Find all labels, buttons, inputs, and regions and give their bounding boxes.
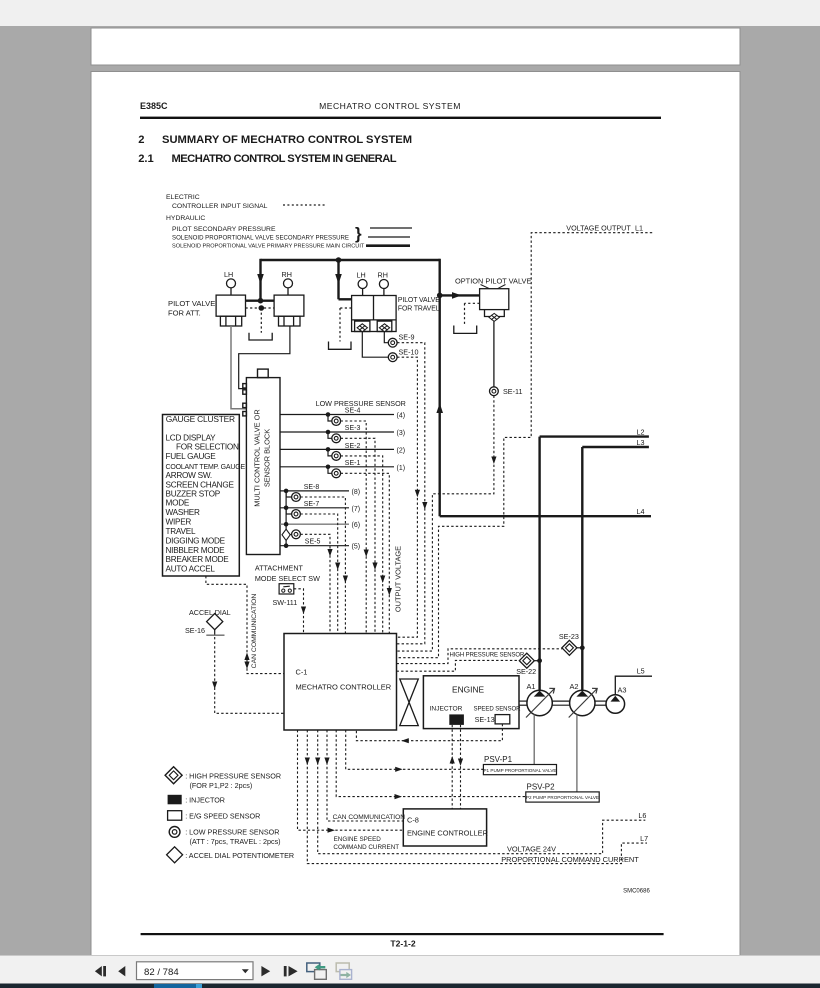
- previous view button: [307, 963, 327, 979]
- svg-text:P2 PUMP PROPORTIONAL VALVE: P2 PUMP PROPORTIONAL VALVE: [526, 795, 599, 800]
- tank symbol under option valve: [454, 326, 477, 334]
- wire SE-2 to C-1: [341, 456, 383, 634]
- wire L5: [615, 676, 652, 695]
- valve block top notch: [258, 369, 269, 378]
- svg-text:MECHATRO CONTROL SYSTEM IN GEN: MECHATRO CONTROL SYSTEM IN GENERAL: [172, 153, 397, 165]
- svg-text:SE-10: SE-10: [399, 348, 419, 357]
- valve option body: [480, 289, 509, 310]
- wire engine speed command current C-1 to C-8: [298, 730, 404, 830]
- svg-text:2.1: 2.1: [138, 153, 154, 165]
- wire dashed travel tank link: [340, 308, 352, 342]
- valve option neck: [485, 310, 505, 317]
- legend sample main circuit thick line: [366, 244, 410, 247]
- svg-text:ARROW SW.: ARROW SW.: [166, 471, 212, 480]
- wire SE-22 to C-1: [397, 660, 520, 671]
- sensor row labels: [304, 408, 405, 551]
- svg-text:WASHER: WASHER: [166, 508, 200, 517]
- svg-text:ELECTRIC: ELECTRIC: [166, 194, 200, 201]
- wire ATT LH output (gray): [231, 326, 246, 409]
- svg-text:PILOT SECONDARY PRESSURE: PILOT SECONDARY PRESSURE: [172, 226, 276, 233]
- valve travel body: [352, 296, 397, 332]
- wire A1 pump riser: [538, 437, 540, 691]
- junction dot travel tee: [336, 257, 342, 263]
- valve ATT LH ports: [220, 316, 241, 326]
- valve block body: [246, 378, 280, 555]
- svg-text:PILOT VALVE: PILOT VALVE: [398, 297, 440, 304]
- shuttle diamond above row 5: [282, 529, 290, 540]
- pointer lines from label: [481, 285, 490, 289]
- svg-text:: HIGH PRESSURE SENSOR: : HIGH PRESSURE SENSOR: [185, 771, 281, 780]
- sensor SE-8: [292, 493, 301, 502]
- svg-text:SMC0686: SMC0686: [623, 889, 650, 895]
- legend accel dial symbol: [167, 847, 183, 863]
- svg-text:BUZZER STOP: BUZZER STOP: [166, 490, 221, 499]
- svg-text:MODE SELECT SW: MODE SELECT SW: [255, 574, 320, 583]
- svg-text:INJECTOR: INJECTOR: [430, 706, 463, 713]
- svg-text:MECHATRO CONTROL SYSTEM: MECHATRO CONTROL SYSTEM: [319, 101, 461, 111]
- junction dots on rows: [284, 412, 331, 548]
- wire SE-10 to C-1: [397, 357, 418, 637]
- wire SE-7 to C-1: [300, 514, 337, 634]
- svg-text:COOLANT TEMP. GAUGE: COOLANT TEMP. GAUGE: [166, 464, 246, 471]
- svg-text:WIPER: WIPER: [166, 518, 192, 527]
- svg-text:82 / 784: 82 / 784: [144, 967, 179, 978]
- tank symbol under ATT valves: [249, 333, 272, 340]
- arrow down on travel drop: [335, 274, 342, 284]
- wire CAN gauge cluster to C-1: [206, 576, 284, 674]
- potentiometer SE-16 diamond: [207, 614, 223, 630]
- junction dot ATT link: [258, 298, 264, 304]
- valve travel RH knob: [379, 280, 388, 289]
- bottom window edge bar: [0, 984, 820, 988]
- sensor SE-2: [332, 452, 341, 461]
- wire into travel valve left port: [339, 298, 352, 300]
- wire option valve to SE-11: [493, 321, 495, 386]
- svg-text:: INJECTOR: : INJECTOR: [185, 795, 225, 804]
- svg-text:BREAKER MODE: BREAKER MODE: [166, 555, 230, 564]
- svg-text:FOR TRAVEL: FOR TRAVEL: [398, 306, 440, 313]
- svg-text:2: 2: [138, 134, 144, 146]
- svg-text:ACCEL DIAL: ACCEL DIAL: [189, 608, 231, 617]
- svg-text:OPTION PILOT VALVE: OPTION PILOT VALVE: [455, 277, 531, 286]
- wire right riser x=439.7: [439, 259, 441, 516]
- sensor SE-23 diamond: [562, 640, 577, 655]
- svg-text:RH: RH: [378, 271, 388, 280]
- wire main supply top horizontal: [261, 259, 440, 261]
- gauge cluster box: [163, 415, 240, 577]
- svg-text:LH: LH: [224, 270, 233, 279]
- svg-text:(7): (7): [352, 506, 361, 513]
- next page button: [261, 966, 270, 976]
- sensor SE-22 diamond: [519, 653, 534, 668]
- wire dashed option tank link: [465, 303, 480, 325]
- valve block left ports: [243, 384, 247, 388]
- valve ATT RH knob circle: [284, 279, 293, 288]
- valve travel solenoid box RH: [377, 321, 392, 331]
- wire SE-4 to C-1: [341, 421, 367, 634]
- wire SE-1 to C-1: [341, 473, 390, 633]
- svg-text:(4): (4): [397, 413, 406, 420]
- svg-text:ATTACHMENT: ATTACHMENT: [255, 564, 304, 573]
- svg-text:LH: LH: [357, 271, 366, 280]
- wire SE-3 to C-1: [341, 438, 375, 633]
- svg-text:MULTI CONTROL VALVE OR: MULTI CONTROL VALVE OR: [253, 409, 262, 506]
- wire L1 voltage output: [397, 233, 653, 658]
- svg-text:L5: L5: [637, 666, 645, 675]
- svg-text:SE-3: SE-3: [345, 425, 361, 432]
- valve ATT RH body: [274, 295, 304, 316]
- svg-text:: ACCEL DIAL POTENTIOMETER: : ACCEL DIAL POTENTIOMETER: [185, 851, 294, 860]
- speed sensor block: [495, 715, 510, 724]
- symbol solenoid diamond RH: [379, 324, 389, 332]
- wire SE-23 to C-1: [397, 649, 563, 664]
- svg-text:(5): (5): [352, 544, 361, 551]
- wire travel RH to SE-9: [384, 332, 388, 343]
- svg-text:L6: L6: [638, 811, 646, 820]
- svg-text:GAUGE CLUSTER: GAUGE CLUSTER: [166, 414, 235, 424]
- svg-text:DIGGING MODE: DIGGING MODE: [166, 537, 226, 546]
- legend high pressure sensor symbol: [165, 767, 182, 784]
- svg-text:P1 PUMP PROPORTIONAL VALVE: P1 PUMP PROPORTIONAL VALVE: [483, 768, 556, 773]
- header rule: [140, 117, 661, 119]
- svg-text:FOR SELECTION: FOR SELECTION: [176, 443, 239, 452]
- svg-text:OUTPUT VOLTAGE: OUTPUT VOLTAGE: [394, 546, 403, 612]
- current page: [91, 72, 740, 962]
- wire row (2): [280, 448, 394, 450]
- svg-text:SE-9: SE-9: [399, 333, 415, 342]
- coupling hourglass between C-1 and engine: [400, 679, 419, 726]
- wire row (7): [280, 507, 349, 509]
- svg-text:A1: A1: [527, 682, 536, 691]
- sensor SE-11: [490, 387, 499, 396]
- svg-text:FOR ATT.: FOR ATT.: [168, 309, 201, 318]
- svg-text:SW-111: SW-111: [273, 598, 298, 607]
- svg-text:CAN COMMUNICATION: CAN COMMUNICATION: [251, 594, 258, 669]
- svg-text:T2-1-2: T2-1-2: [390, 939, 416, 949]
- valve ATT LH knob circle: [227, 279, 236, 288]
- pump A2: [570, 690, 595, 715]
- junction dot ATT dashed: [259, 305, 265, 311]
- gauge cluster items: [166, 434, 246, 574]
- svg-text:C-8: C-8: [407, 816, 419, 825]
- wire C-8 to injector: [451, 725, 453, 809]
- svg-text:HYDRAULIC: HYDRAULIC: [166, 215, 205, 222]
- injector block: [449, 714, 464, 725]
- wire SE-13 to C-1: [356, 724, 502, 741]
- wire supply drop to ATT valves: [259, 259, 261, 301]
- svg-text:ENGINE SPEED: ENGINE SPEED: [334, 836, 382, 843]
- svg-text:A2: A2: [570, 682, 579, 691]
- previous page button: [118, 966, 125, 976]
- wire row (3): [280, 431, 394, 433]
- svg-text:L2: L2: [637, 427, 645, 436]
- sensor SE-5: [292, 530, 301, 539]
- svg-text:MECHATRO CONTROLLER: MECHATRO CONTROLLER: [296, 683, 392, 692]
- svg-text:SE-7: SE-7: [304, 501, 320, 508]
- svg-text:SE-11: SE-11: [503, 387, 522, 396]
- wire SE-9 to C-1: [397, 343, 425, 644]
- svg-text:L4: L4: [637, 507, 645, 516]
- wire voltage 24V to L6: [318, 730, 646, 854]
- svg-text:E385C: E385C: [140, 101, 168, 111]
- symbol solenoid diamond option: [489, 313, 499, 321]
- svg-text:PROPORTIONAL COMMAND CURRENT: PROPORTIONAL COMMAND CURRENT: [501, 855, 639, 864]
- wire SE-11 to C-1: [397, 396, 494, 651]
- svg-text:CAN COMMUNICATION: CAN COMMUNICATION: [333, 814, 406, 821]
- wire to PSV-P1: [346, 730, 484, 769]
- tank symbol under travel valve: [329, 342, 352, 350]
- sensor SE-1: [332, 469, 341, 478]
- wire to PSV-P2: [336, 730, 526, 797]
- svg-text:LOW PRESSURE SENSOR: LOW PRESSURE SENSOR: [316, 399, 406, 408]
- first page button: [95, 966, 106, 976]
- valve ATT RH ports: [279, 316, 301, 326]
- arrow down on ATT drop: [257, 274, 264, 284]
- svg-text:SCREEN CHANGE: SCREEN CHANGE: [166, 481, 235, 490]
- svg-text:VOLTAGE OUTPUT: VOLTAGE OUTPUT: [566, 223, 631, 232]
- svg-text:LCD DISPLAY: LCD DISPLAY: [166, 434, 217, 443]
- wire A2 pump riser: [581, 447, 583, 691]
- svg-text:NIBBLER MODE: NIBBLER MODE: [166, 546, 226, 555]
- valve travel LH knob: [358, 280, 367, 289]
- symbol solenoid diamond LH: [357, 324, 390, 332]
- svg-text:SE-1: SE-1: [345, 460, 361, 467]
- svg-text:SOLENOID PROPORTIONAL VALVE PR: SOLENOID PROPORTIONAL VALVE PRIMARY PRES…: [172, 244, 365, 250]
- switch SW-111: [279, 584, 294, 594]
- svg-text:ENGINE CONTROLLER: ENGINE CONTROLLER: [407, 829, 488, 838]
- wire row (8): [280, 490, 349, 492]
- wire accel dial to C-1: [215, 637, 284, 713]
- svg-text:(8): (8): [352, 489, 361, 496]
- svg-text:ENGINE: ENGINE: [452, 685, 485, 695]
- svg-text:L1: L1: [635, 223, 643, 232]
- wire L3 horizontal: [582, 446, 649, 448]
- svg-text:SE-16: SE-16: [185, 626, 205, 635]
- svg-text:RH: RH: [282, 270, 292, 279]
- wire row (6) gray: [280, 523, 349, 525]
- wire L2 horizontal: [540, 435, 649, 437]
- valve travel solenoid box LH: [355, 321, 370, 331]
- arrow right to option valve: [452, 292, 462, 299]
- junction dot option tee: [437, 293, 443, 299]
- svg-text:PSV-P1: PSV-P1: [484, 755, 513, 764]
- top toolbar strip: [0, 0, 820, 26]
- svg-text:SE-22: SE-22: [516, 667, 536, 676]
- shaft lines engine to A1: [519, 701, 606, 705]
- svg-text:SE-23: SE-23: [559, 632, 579, 641]
- svg-text:HIGH PRESSURE SENSOR: HIGH PRESSURE SENSOR: [450, 653, 525, 659]
- previous page bottom sliver: [91, 28, 740, 65]
- footer rule: [141, 933, 664, 935]
- controller C-8 box: [403, 809, 486, 846]
- legend sample dashed electric line: [283, 204, 326, 206]
- sensor SE-4: [292, 417, 341, 539]
- wire proportional command current to L7: [307, 730, 647, 864]
- svg-text:: E/G SPEED SENSOR: : E/G SPEED SENSOR: [185, 811, 260, 820]
- shaft lines A1 to A2: [552, 700, 570, 702]
- svg-text:(6): (6): [352, 522, 361, 529]
- svg-text:PSV-P2: PSV-P2: [527, 782, 556, 791]
- svg-text:(2): (2): [397, 447, 406, 454]
- svg-text:VOLTAGE 24V: VOLTAGE 24V: [507, 845, 556, 854]
- svg-text:}: }: [355, 224, 362, 243]
- svg-text:: LOW PRESSURE SENSOR: : LOW PRESSURE SENSOR: [185, 828, 279, 837]
- svg-text:FUEL GAUGE: FUEL GAUGE: [166, 452, 217, 461]
- next view button (disabled): [336, 963, 351, 979]
- wire row (4): [280, 414, 394, 416]
- svg-text:CONTROLLER INPUT SIGNAL: CONTROLLER INPUT SIGNAL: [172, 203, 268, 210]
- legend sample secondary line: [368, 236, 410, 238]
- sensor SE-10: [388, 353, 397, 362]
- page number box: [137, 962, 254, 980]
- svg-text:SENSOR BLOCK: SENSOR BLOCK: [263, 429, 272, 487]
- svg-text:L3: L3: [637, 438, 645, 447]
- wire supply drop to travel valve: [337, 259, 339, 300]
- svg-text:COMMAND CURRENT: COMMAND CURRENT: [333, 844, 399, 851]
- wire travel LH to SE-10: [362, 332, 388, 358]
- wire row (1): [280, 466, 394, 468]
- wire row (5): [280, 545, 349, 547]
- wire dashed ATT tank link: [246, 308, 275, 333]
- svg-text:TRAVEL: TRAVEL: [166, 527, 196, 536]
- legend e/g speed sensor symbol: [168, 811, 182, 821]
- svg-text:(1): (1): [397, 465, 406, 472]
- svg-text:SE-8: SE-8: [304, 484, 320, 491]
- svg-text:C-1: C-1: [296, 668, 308, 677]
- svg-text:SOLENOID PROPORTIONAL VALVE SE: SOLENOID PROPORTIONAL VALVE SECONDARY PR…: [172, 235, 349, 242]
- wire vertical link rows 8-5: [285, 491, 287, 546]
- shaft lines A2 to A3: [595, 700, 606, 702]
- legend sample pilot line: [370, 227, 412, 229]
- arrows on dashed sensor wires: [327, 457, 496, 596]
- sensor SE-7: [292, 510, 301, 519]
- pump A3: [606, 695, 625, 714]
- svg-text:AUTO ACCEL: AUTO ACCEL: [166, 565, 216, 574]
- legend injector symbol: [168, 795, 182, 805]
- svg-text:MODE: MODE: [166, 499, 190, 508]
- wire SE-8 to C-1: [300, 497, 345, 634]
- controller C-1 box: [284, 634, 397, 731]
- wire ATT LH-RH link: [246, 300, 275, 302]
- wire branch to option pilot valve: [440, 294, 480, 296]
- wire A2 to PSV-P2: [576, 715, 578, 792]
- sensor SE-9: [388, 338, 397, 347]
- legend low pressure sensor symbol: [169, 827, 180, 838]
- sensor SE-3: [332, 434, 341, 443]
- svg-text:(FOR P1,P2 : 2pcs): (FOR P1,P2 : 2pcs): [190, 781, 253, 790]
- engine box: [423, 676, 519, 729]
- svg-text:SE-13: SE-13: [475, 715, 495, 724]
- wire L4 horizontal: [440, 515, 651, 517]
- pump A1: [527, 690, 552, 715]
- svg-text:(3): (3): [397, 430, 406, 437]
- last page button: [284, 966, 298, 976]
- potentiometer stem: [214, 630, 216, 636]
- wire CAN C-1 to C-8: [327, 730, 403, 821]
- wire SE-5 to C-1: [300, 534, 330, 633]
- wire SW-111 to C-1: [294, 589, 304, 634]
- valve ATT LH body: [216, 295, 245, 316]
- svg-text:SE-4: SE-4: [345, 408, 361, 415]
- arrows on bottom dashed wires: [305, 738, 463, 833]
- svg-text:SUMMARY OF MECHATRO CONTROL SY: SUMMARY OF MECHATRO CONTROL SYSTEM: [162, 134, 412, 146]
- wire ATT RH output: [239, 326, 290, 389]
- svg-text:SE-5: SE-5: [305, 539, 321, 546]
- arrow up on right riser: [436, 403, 443, 413]
- svg-text:L7: L7: [640, 834, 648, 843]
- svg-text:SPEED SENSOR: SPEED SENSOR: [474, 706, 522, 713]
- svg-text:SE-2: SE-2: [345, 443, 361, 450]
- svg-text:PILOT VALVE: PILOT VALVE: [168, 299, 215, 308]
- svg-text:(ATT : 7pcs, TRAVEL : 2pcs): (ATT : 7pcs, TRAVEL : 2pcs): [190, 837, 281, 846]
- svg-text:A3: A3: [618, 686, 627, 695]
- wire A1 to PSV-P1: [533, 715, 535, 765]
